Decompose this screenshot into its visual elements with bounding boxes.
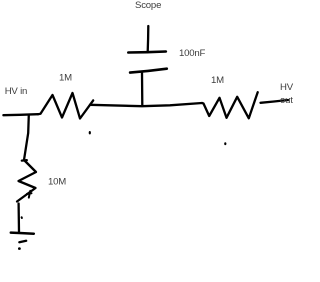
ground bar 2 — [19, 241, 26, 242]
label HV in — [5, 86, 27, 97]
svg-text:1M: 1M — [211, 75, 224, 86]
resistor R2 1M right — [202, 92, 258, 118]
resistor R1 1M left — [38, 93, 93, 119]
svg-text:10M: 10M — [48, 177, 66, 188]
wire node A segment — [90, 103, 202, 106]
stray dot right — [224, 142, 226, 145]
svg-text:HV: HV — [280, 82, 294, 93]
wire scope lead — [147, 26, 150, 52]
svg-text:1M: 1M — [59, 72, 72, 83]
wire capacitor to node A — [141, 73, 144, 106]
stray dot left — [89, 131, 91, 134]
resistor R3 10M — [17, 160, 36, 202]
wire HV in segment — [3, 114, 38, 115]
capacitor C1 top plate — [128, 52, 166, 53]
wire 10M to ground — [17, 204, 20, 233]
ground dot — [18, 247, 21, 250]
svg-text:Scope: Scope — [135, 0, 161, 11]
wire HV out segment — [261, 100, 289, 103]
value label 1M left — [59, 72, 72, 83]
stray tick on ground wire — [21, 216, 23, 219]
label Scope — [135, 0, 161, 11]
value label 1M right — [211, 75, 224, 86]
svg-text:out: out — [280, 95, 293, 106]
svg-text:HV in: HV in — [5, 86, 27, 97]
svg-text:100nF: 100nF — [179, 48, 206, 59]
value label 100nF — [179, 48, 206, 59]
resistor R3 10M start nub — [22, 159, 27, 162]
ground bar 1 — [11, 233, 34, 234]
wire branch to 10M — [24, 115, 29, 160]
capacitor C1 bottom plate — [130, 69, 167, 73]
resistor R3 stray cross mark — [27, 191, 32, 198]
label HV out — [280, 82, 294, 106]
value label 10M — [48, 177, 66, 188]
